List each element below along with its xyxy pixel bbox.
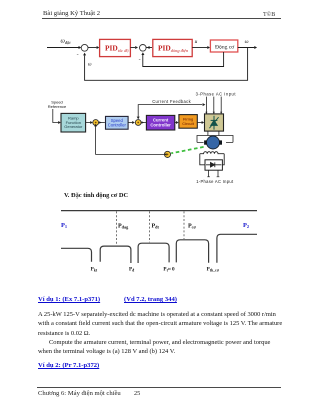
svg-text:P1: P1 (61, 222, 67, 229)
summing junction S1 (81, 44, 88, 51)
svg-text:Pcơ: Pcơ (188, 223, 197, 229)
diode in field rectifier (206, 164, 221, 166)
wire tacho output arrow (164, 153, 167, 155)
thyristor converter block (205, 114, 224, 131)
wire field loop sides (200, 154, 224, 165)
section heading V (64, 192, 128, 199)
wire outer speed feedback (85, 48, 248, 81)
speed controller block (106, 116, 129, 129)
svg-text:ω: ω (88, 63, 92, 68)
svg-text:Pđ: Pđ (129, 267, 135, 273)
svg-text:P2: P2 (243, 222, 249, 229)
wire summer B to current controller (141, 122, 146, 124)
svg-text:Pth_cơ: Pth_cơ (207, 267, 220, 273)
wire power flow top boundary (61, 210, 257, 212)
svg-text:Pđag: Pđag (118, 223, 129, 229)
footer text (38, 390, 121, 397)
wire summer2 to PID2 with reverse arrow (146, 47, 152, 49)
footer rule (37, 387, 281, 388)
wire 1-phase input stubs (209, 170, 218, 176)
tachometer (164, 151, 170, 157)
svg-text:Generator: Generator (64, 124, 83, 129)
wire current feedback (138, 105, 202, 119)
divider dashed line 1 (116, 211, 118, 245)
header left text (43, 10, 100, 17)
wire PID1 to summer 2 (130, 47, 135, 49)
example 1 heading (38, 296, 100, 303)
wire inner current feedback (143, 52, 224, 67)
ramp function generator block (61, 113, 86, 132)
PID speed controller box (100, 39, 131, 56)
field rectifier box (205, 160, 222, 170)
wire ramp to summer A (86, 122, 91, 124)
wire PID2 to motor (192, 47, 207, 49)
svg-text:1-Phase AC Input: 1-Phase AC Input (196, 179, 234, 184)
wire speed feedback to summer A (96, 126, 165, 155)
svg-text:Controller: Controller (150, 122, 171, 127)
wire current controller to firing circuit (175, 122, 177, 124)
wire tacho coupling dashed green (171, 147, 203, 153)
header right text (263, 12, 275, 18)
divider dashed line 3 (183, 211, 185, 239)
wire input to summer 1 (47, 47, 79, 49)
divider dashed line 2 (148, 211, 150, 242)
svg-text:-: - (77, 53, 79, 59)
wire summer1 to PID1 (88, 47, 97, 49)
svg-text:u: u (195, 39, 198, 45)
summing junction B (135, 120, 141, 126)
wire motor to output (238, 47, 255, 49)
svg-text:Current Feedback: Current Feedback (152, 99, 191, 104)
summing junction S2 (140, 45, 147, 52)
wire summer A to speed controller (99, 122, 105, 124)
brush right (219, 140, 222, 144)
field winding coil (200, 152, 224, 154)
wire converter output to motor bracket (208, 131, 219, 135)
summing junction A (93, 120, 99, 126)
firing circuit block (179, 115, 197, 129)
svg-text:-: - (139, 58, 141, 64)
svg-text:ω: ω (245, 39, 249, 45)
SCR symbol inside converter (209, 116, 218, 130)
header rule (42, 18, 281, 19)
wire speed reference into ramp generator (53, 109, 59, 123)
paragraph (38, 310, 282, 356)
svg-text:ωđặt: ωđặt (61, 38, 72, 45)
svg-text:Controller: Controller (108, 122, 127, 127)
svg-text:Pđt: Pđt (152, 223, 160, 229)
svg-text:Pt≈ 0: Pt≈ 0 (163, 267, 175, 273)
page number (134, 390, 140, 397)
wire power flow bottom boundary with loss branches (61, 234, 257, 263)
svg-text:Reference: Reference (48, 104, 67, 109)
motor armature (207, 136, 220, 149)
svg-text:Động cơ: Động cơ (215, 45, 235, 51)
wire firing circuit to converter (197, 122, 202, 124)
current controller block (146, 115, 174, 130)
PID current controller box (153, 39, 192, 56)
wire 3-phase input lines (206, 97, 221, 114)
example 2 heading (38, 362, 99, 369)
motor block Dong co (210, 40, 237, 52)
wire speed controller to summer B (128, 122, 133, 124)
svg-text:3-Phase AC Input: 3-Phase AC Input (196, 92, 237, 97)
brush left (204, 140, 207, 144)
svg-text:Pkt: Pkt (91, 267, 98, 273)
svg-text:Circuit: Circuit (182, 122, 194, 126)
svg-text:Firing: Firing (183, 118, 193, 122)
